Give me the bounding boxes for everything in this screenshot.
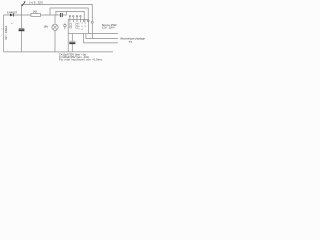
svg-text:+: + [1, 35, 3, 37]
svg-text:1k5: 1k5 [33, 10, 38, 14]
svg-text:4 5 6: 4 5 6 [78, 26, 86, 28]
svg-text:7 8: 7 8 [78, 29, 83, 31]
svg-text:9V= / 200mA: 9V= / 200mA [5, 25, 8, 39]
svg-text:+: + [11, 22, 13, 25]
svg-text:18V: 18V [43, 24, 48, 28]
svg-text:(+) 9...32V: (+) 9...32V [29, 0, 43, 4]
svg-text:Für eine Impulszeit von ~0,5se: Für eine Impulszeit von ~0,5sec [59, 58, 103, 62]
svg-text:1 2 3: 1 2 3 [78, 23, 86, 25]
svg-text:1N4007: 1N4007 [7, 10, 18, 14]
svg-text:≈: ≈ [1, 28, 3, 31]
svg-text:12V...18V~: 12V...18V~ [102, 26, 116, 30]
svg-text:etc.: etc. [129, 40, 133, 43]
svg-text:Wechselsprechanlage: Wechselsprechanlage [120, 38, 145, 41]
